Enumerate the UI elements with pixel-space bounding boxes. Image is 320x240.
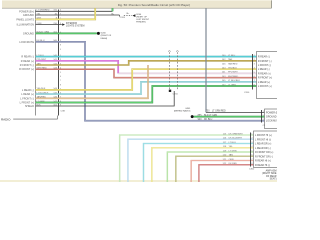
wire TAN/RED left front (-) up at x148: [36, 65, 149, 98]
svg-text:R FRONT DR (-): R FRONT DR (-): [255, 155, 273, 158]
svg-text:INTERIOR: INTERIOR: [66, 23, 77, 25]
svg-text:RADIO: RADIO: [1, 117, 11, 121]
svg-text:LIGHTS SYSTEM: LIGHTS SYSTEM: [66, 26, 84, 28]
shield termination square: [169, 90, 171, 92]
svg-text:TAN: TAN: [228, 58, 233, 61]
svg-text:POWER (B+): POWER (B+): [266, 111, 277, 114]
svg-text:C302: C302: [249, 169, 255, 171]
wire LT GRN/RED power (radio pin 4) with vertical to top: [36, 10, 113, 12]
svg-text:Fig. 50: Premium Sound/Radio C: Fig. 50: Premium Sound/Radio Circuit (w/…: [118, 3, 190, 7]
svg-text:GROUND: GROUND: [266, 116, 277, 119]
amp C3 speaker output wires with corners to bottom edge: [120, 135, 254, 182]
wire WHT/RED right front (+) jog down at x114: [36, 69, 257, 77]
svg-text:POWER (B+): POWER (B+): [19, 10, 34, 13]
wire LT BLU right rear (-) straight to amp: [36, 56, 257, 58]
svg-text:LT BLU/BLK: LT BLU/BLK: [228, 80, 240, 82]
svg-text:WHT/RED: WHT/RED: [228, 76, 239, 78]
svg-text:(BEHIND RADIO): (BEHIND RADIO): [174, 110, 191, 113]
wire GROUND/B+ feed (radio pin 7): [36, 14, 120, 16]
svg-text:TAN/RED: TAN/RED: [228, 62, 238, 65]
svg-text:PPL/WHT: PPL/WHT: [228, 72, 238, 74]
svg-text:C205: C205: [120, 17, 126, 19]
in-line connector C210 dashed halves: [168, 52, 170, 89]
svg-text:C210: C210: [173, 94, 179, 96]
radio component box edge: [35, 10, 37, 116]
svg-text:DK GRN/WHT: DK GRN/WHT: [229, 133, 244, 135]
svg-text:ORN: ORN: [229, 159, 234, 161]
wire TAN right front (-) step up at x128.7: [36, 61, 257, 65]
svg-text:L REAR (+): L REAR (+): [258, 81, 270, 84]
svg-text:R REAR HI (-): R REAR HI (-): [255, 164, 270, 167]
svg-text:LT GRN/RED: LT GRN/RED: [212, 111, 226, 113]
svg-text:LT BLU: LT BLU: [228, 55, 236, 57]
svg-text:R REAR (-): R REAR (-): [258, 56, 270, 59]
wire BLK/LT GRN ground (radio pin 6) to ground G200: [36, 32, 97, 34]
svg-text:R REAR HI (+): R REAR HI (+): [255, 160, 271, 163]
svg-text:L REAR (-): L REAR (-): [22, 89, 34, 92]
wire LT GRN left front (+) up at x152: [36, 86, 257, 103]
bottom page border: [0, 180, 277, 182]
wire DK BLU lock/mute (radio pin 5) to amp connector: [36, 42, 265, 121]
ground G301 dot: [191, 115, 194, 118]
svg-text:LOCK/MUTE: LOCK/MUTE: [19, 41, 34, 44]
svg-text:R REAR (-): R REAR (-): [21, 56, 34, 59]
svg-text:TAN: TAN: [229, 154, 234, 157]
svg-text:GROUND: GROUND: [23, 14, 34, 17]
svg-text:BLK/LT GRN: BLK/LT GRN: [204, 115, 218, 117]
wire BLK shield to in-line connector: [36, 91, 175, 106]
svg-text:LT GRN: LT GRN: [228, 84, 236, 86]
wire ORN illumination (radio pin 3) to interior lights arrow: [36, 24, 62, 26]
wire LT BLU/BLK left rear (+) up at x141: [36, 82, 257, 94]
wire YEL/BLK left rear (-) up at x132: [36, 69, 257, 90]
svg-text:SHIELD: SHIELD: [25, 105, 34, 108]
svg-text:L REAR (-): L REAR (-): [258, 68, 270, 71]
wire YEL panel lights (radio pin 2) with vertical to top: [36, 8, 96, 19]
svg-text:YEL/BLK: YEL/BLK: [228, 68, 237, 70]
svg-text:GROUND: GROUND: [23, 32, 34, 35]
amp connector C3 bracket: [250, 133, 252, 167]
svg-text:DK BLU: DK BLU: [204, 119, 213, 121]
svg-text:L FRONT (-): L FRONT (-): [258, 64, 271, 67]
svg-text:PANEL LIGHTS: PANEL LIGHTS: [16, 18, 34, 21]
svg-text:L FRONT (+): L FRONT (+): [258, 85, 272, 88]
amp box C1: [257, 52, 279, 99]
svg-text:ILLUMINATION: ILLUMINATION: [17, 24, 35, 27]
svg-text:R REAR (+): R REAR (+): [21, 60, 34, 63]
title bar: [2, 0, 272, 8]
svg-text:L FRONT HI (-): L FRONT HI (-): [255, 138, 271, 141]
svg-text:DK RED: DK RED: [229, 163, 238, 165]
svg-text:L REAR DR (-): L REAR DR (-): [255, 147, 271, 150]
svg-text:DASH): DASH): [101, 37, 108, 40]
svg-text:R FRONT (+): R FRONT (+): [19, 68, 34, 71]
radio connector bracket C1/C2/C3: [58, 10, 60, 116]
svg-text:L FRONT HI (+): L FRONT HI (+): [255, 134, 272, 137]
svg-text:L REAR DR (+): L REAR DR (+): [255, 143, 272, 146]
amp power feed LT GRN/RED from top: [205, 8, 207, 112]
amp connector C1 bracket: [252, 54, 254, 90]
svg-text:FENDER): FENDER): [136, 22, 146, 24]
svg-text:DK BLU/WHT: DK BLU/WHT: [229, 138, 243, 140]
svg-text:L REAR (+): L REAR (+): [21, 93, 34, 96]
wire PPL/WHT right rear (+) jog down at x118: [36, 61, 119, 74]
svg-text:C3B: C3B: [61, 111, 66, 113]
svg-text:R FRONT (+): R FRONT (+): [258, 77, 272, 80]
svg-text:L FRONT (-): L FRONT (-): [20, 97, 34, 100]
amp ground wire BLK/LT GRN to ground G301: [194, 116, 265, 118]
svg-text:C200: C200: [244, 92, 250, 94]
amp connector C2 bracket: [261, 110, 263, 123]
amp box C3: [254, 131, 279, 168]
ground G200 dot: [97, 32, 100, 35]
svg-text:R FRONT (-): R FRONT (-): [258, 60, 272, 63]
svg-text:R FRONT DR (+): R FRONT DR (+): [255, 151, 274, 154]
amp box C2: [265, 109, 279, 129]
svg-text:R REAR (+): R REAR (+): [258, 72, 271, 75]
svg-text:LT BLU: LT BLU: [229, 142, 237, 144]
svg-text:R FRONT (-): R FRONT (-): [20, 64, 34, 67]
svg-text:LT GRN: LT GRN: [229, 150, 237, 152]
svg-text:LOCK/MUTE: LOCK/MUTE: [266, 120, 277, 123]
svg-text:SEAT): SEAT): [270, 178, 277, 181]
